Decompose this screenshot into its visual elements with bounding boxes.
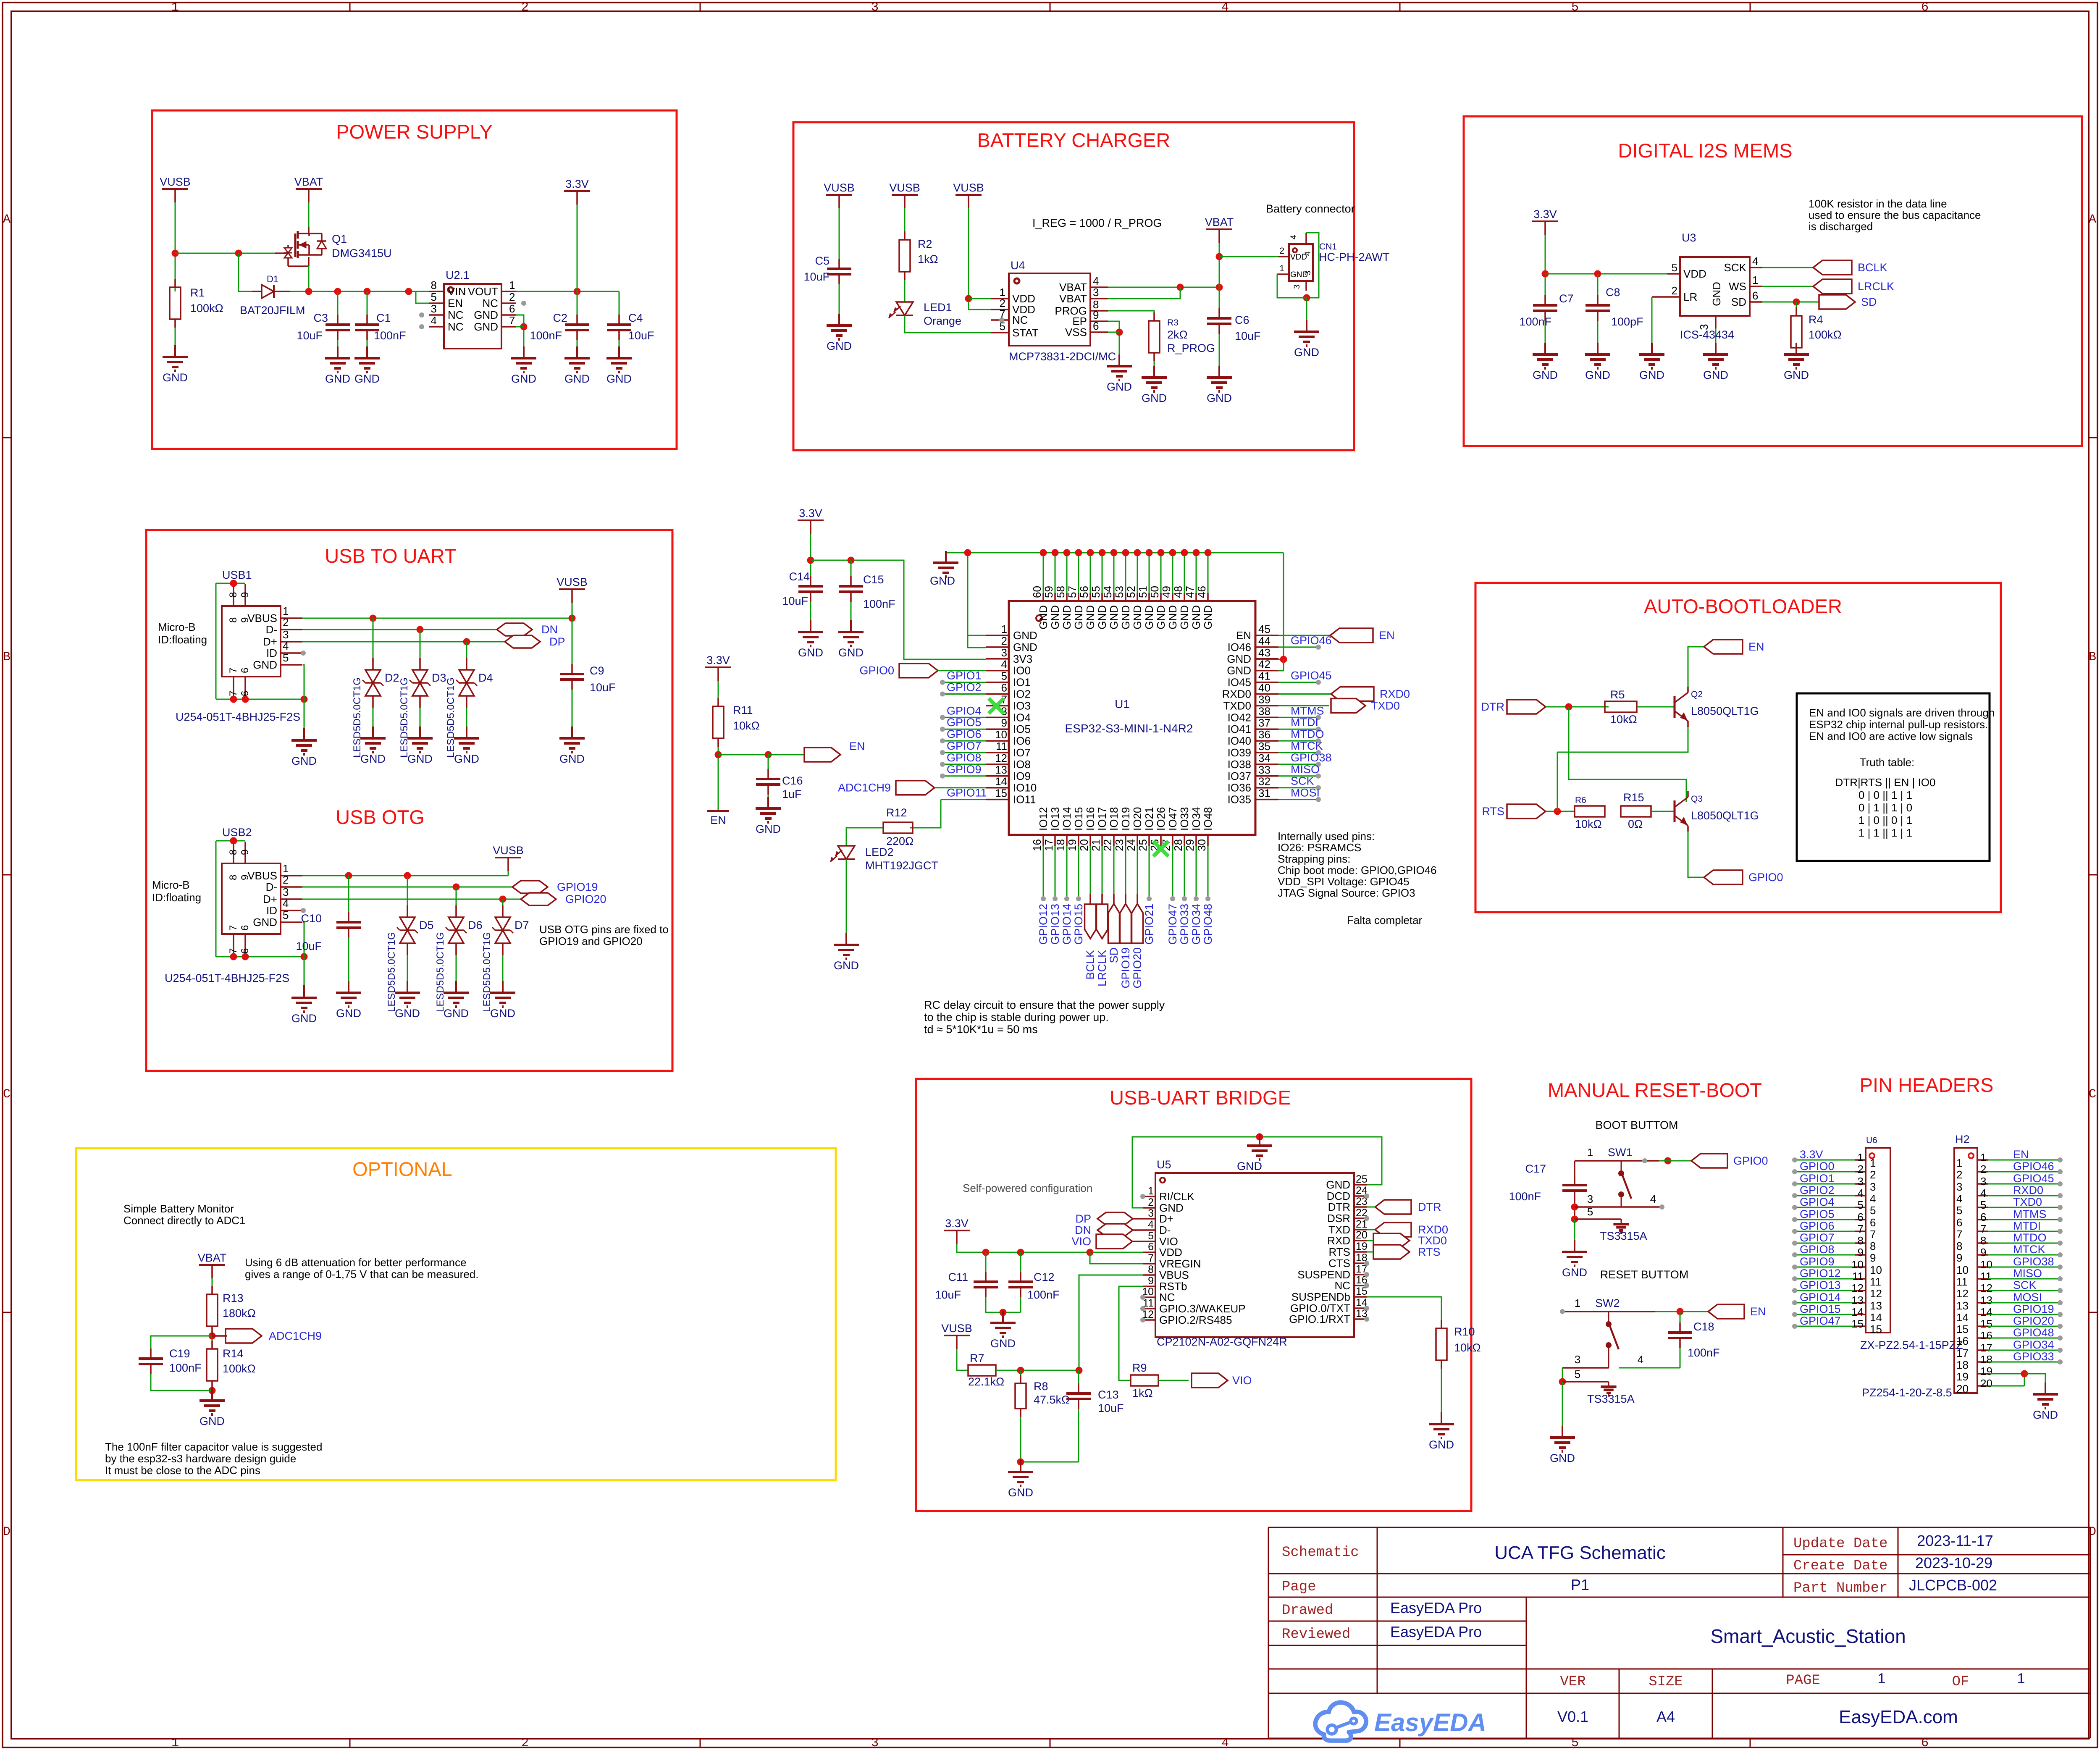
svg-text:GPIO14: GPIO14 [1800,1291,1841,1304]
svg-text:3: 3 [1858,1175,1864,1188]
svg-text:GPIO20: GPIO20 [2013,1314,2054,1327]
svg-text:SUSPENDb: SUSPENDb [1291,1291,1350,1303]
svg-text:11: 11 [1852,1270,1864,1283]
svg-text:2: 2 [1279,246,1284,256]
svg-text:2: 2 [1672,284,1677,297]
svg-text:6: 6 [239,691,251,696]
svg-text:20: 20 [1078,839,1090,851]
svg-text:7: 7 [1956,1228,1962,1241]
svg-text:ADC1CH9: ADC1CH9 [269,1330,322,1342]
svg-text:DP: DP [549,635,565,648]
svg-text:GPIO6: GPIO6 [947,728,982,740]
svg-text:Internally used pins:: Internally used pins: [1278,830,1375,842]
svg-text:4: 4 [1289,235,1298,239]
svg-text:GND: GND [1326,1178,1350,1191]
svg-text:31: 31 [1258,787,1270,800]
svg-text:ID: ID [266,647,277,659]
svg-text:49: 49 [1160,586,1173,598]
svg-text:VDD_SPI Voltage: GPIO45: VDD_SPI Voltage: GPIO45 [1278,875,1410,888]
svg-text:VUSB: VUSB [824,181,855,194]
svg-text:IO47: IO47 [1166,807,1179,831]
svg-text:U4: U4 [1011,259,1025,272]
svg-text:OPTIONAL: OPTIONAL [352,1158,452,1180]
svg-text:GND: GND [1155,605,1167,630]
svg-text:4: 4 [1870,1192,1876,1205]
svg-text:R14: R14 [223,1347,244,1360]
svg-text:C14: C14 [789,570,810,583]
svg-text:25: 25 [1356,1173,1368,1185]
svg-text:used to ensure the bus capacit: used to ensure the bus capacitance [1809,209,1981,221]
svg-text:8: 8 [228,850,239,855]
svg-text:CN1: CN1 [1319,242,1337,252]
svg-text:D-: D- [1159,1224,1171,1236]
svg-text:GPIO8: GPIO8 [947,751,982,764]
svg-text:C2: C2 [553,312,567,324]
svg-text:GPIO33: GPIO33 [2013,1350,2054,1363]
svg-text:VBAT: VBAT [1059,292,1087,305]
svg-text:POWER SUPPLY: POWER SUPPLY [336,121,493,143]
svg-text:MISO: MISO [1291,763,1320,776]
svg-text:36: 36 [1258,728,1270,741]
svg-text:R7: R7 [970,1352,984,1364]
svg-text:A: A [3,213,10,227]
svg-text:3.3V: 3.3V [565,178,589,190]
svg-text:10uF: 10uF [628,329,654,342]
svg-text:7: 7 [228,925,239,931]
svg-text:GND: GND [838,646,864,659]
svg-text:Drawed: Drawed [1282,1603,1333,1619]
svg-text:MISO: MISO [2013,1267,2042,1280]
svg-text:1: 1 [1870,1157,1876,1169]
svg-text:IO4: IO4 [1013,711,1031,724]
svg-text:1kΩ: 1kΩ [1132,1387,1153,1399]
svg-text:RC delay circuit to ensure tha: RC delay circuit to ensure that the powe… [924,999,1165,1011]
svg-text:A4: A4 [1656,1708,1675,1725]
svg-text:by the esp32-s3 hardware desig: by the esp32-s3 hardware design guide [105,1452,296,1465]
svg-text:2: 2 [1870,1168,1876,1181]
svg-text:1: 1 [1858,1151,1864,1164]
svg-text:2: 2 [283,616,289,629]
svg-text:2: 2 [1980,1163,1986,1175]
svg-text:Battery connector: Battery connector [1266,202,1355,215]
svg-text:59: 59 [1042,586,1055,598]
svg-text:GND: GND [1119,605,1132,630]
svg-text:IO5: IO5 [1013,723,1031,735]
svg-text:8: 8 [1980,1234,1986,1247]
svg-text:9: 9 [1956,1251,1962,1264]
svg-text:1: 1 [283,605,289,617]
svg-text:15: 15 [1980,1317,1992,1330]
svg-text:8: 8 [228,617,239,623]
svg-text:37: 37 [1258,716,1270,729]
svg-text:GND: GND [1072,605,1085,630]
svg-text:Chip boot mode: GPIO0,GPIO46: Chip boot mode: GPIO0,GPIO46 [1278,864,1437,876]
svg-text:39: 39 [1258,693,1270,706]
svg-text:10kΩ: 10kΩ [1610,713,1637,726]
svg-text:3: 3 [1956,1181,1962,1193]
svg-text:AUTO-BOOTLOADER: AUTO-BOOTLOADER [1644,595,1842,617]
svg-text:L8050QLT1G: L8050QLT1G [1691,809,1759,822]
svg-text:14: 14 [1851,1306,1864,1318]
svg-text:IO7: IO7 [1013,746,1031,759]
svg-text:GND: GND [1710,282,1723,306]
svg-text:GPIO34: GPIO34 [2013,1338,2054,1351]
svg-text:GPIO19 and GPIO20: GPIO19 and GPIO20 [539,935,643,947]
svg-text:VBUS: VBUS [247,612,277,624]
svg-text:2: 2 [521,1736,529,1750]
svg-text:TXD0: TXD0 [1418,1234,1447,1247]
svg-text:100kΩ: 100kΩ [223,1362,256,1375]
svg-text:2: 2 [1956,1168,1962,1181]
svg-text:C11: C11 [948,1271,968,1283]
svg-text:IO40: IO40 [1228,735,1251,747]
svg-text:GND: GND [1533,369,1558,381]
svg-text:2: 2 [1001,635,1007,647]
svg-text:1 | 0 || 0 | 1: 1 | 0 || 0 | 1 [1858,814,1912,826]
svg-text:Reviewed: Reviewed [1282,1627,1350,1642]
svg-text:EN: EN [448,297,463,310]
svg-text:3: 3 [1870,1181,1876,1193]
svg-text:SD: SD [1731,296,1746,308]
svg-text:8: 8 [1858,1234,1864,1247]
svg-text:GPIO13: GPIO13 [1800,1279,1841,1291]
svg-text:D4: D4 [478,672,493,684]
svg-text:100kΩ: 100kΩ [190,302,223,315]
svg-text:VBAT: VBAT [1205,216,1234,228]
svg-text:RESET BUTTOM: RESET BUTTOM [1600,1268,1689,1281]
svg-text:NC: NC [1159,1291,1175,1304]
svg-text:U2.1: U2.1 [446,269,470,281]
svg-text:17: 17 [1042,839,1055,851]
svg-text:180kΩ: 180kΩ [223,1307,256,1320]
svg-text:1: 1 [509,279,515,291]
svg-text:GND: GND [1084,605,1097,630]
svg-text:GPIO2: GPIO2 [1800,1184,1835,1196]
svg-text:R5: R5 [1610,688,1625,701]
svg-text:VDD: VDD [1159,1246,1182,1259]
svg-text:10uF: 10uF [1235,330,1261,342]
svg-text:Q1: Q1 [332,233,347,245]
svg-text:MOSI: MOSI [1291,787,1320,799]
svg-text:11: 11 [1980,1270,1992,1283]
svg-text:GPIO47: GPIO47 [1166,904,1179,945]
svg-text:18: 18 [1980,1353,1992,1366]
svg-text:GND: GND [1049,605,1061,630]
svg-text:EN: EN [1236,629,1251,642]
svg-text:BAT20JFILM: BAT20JFILM [240,304,305,317]
svg-text:10kΩ: 10kΩ [1575,818,1602,830]
svg-text:EN and IO0 signals are driven: EN and IO0 signals are driven through [1809,706,1995,719]
svg-text:9: 9 [1148,1275,1154,1287]
svg-text:12: 12 [1851,1282,1864,1294]
svg-text:1: 1 [1956,1157,1962,1169]
svg-text:NC: NC [1334,1279,1350,1292]
svg-text:13: 13 [1956,1299,1969,1312]
svg-text:GND: GND [2033,1409,2058,1421]
svg-text:IO12: IO12 [1037,807,1050,831]
svg-text:11: 11 [1870,1275,1881,1288]
svg-text:18: 18 [1054,839,1067,851]
svg-text:GPIO38: GPIO38 [1291,751,1332,764]
svg-text:GND: GND [1237,1160,1262,1173]
svg-text:C4: C4 [628,312,643,324]
svg-text:D: D [3,1525,10,1539]
svg-text:LESD5D5.0CT1G: LESD5D5.0CT1G [445,677,457,758]
svg-text:100nF: 100nF [1688,1346,1720,1359]
svg-text:RTS: RTS [1418,1246,1441,1258]
svg-text:5: 5 [1001,670,1007,682]
svg-text:D-: D- [266,623,277,636]
svg-text:D6: D6 [468,919,483,931]
svg-text:GPIO48: GPIO48 [2013,1326,2054,1339]
svg-text:NC: NC [482,297,498,310]
svg-text:GPIO15: GPIO15 [1800,1303,1841,1315]
svg-text:10uF: 10uF [297,329,323,342]
svg-text:MANUAL RESET-BOOT: MANUAL RESET-BOOT [1548,1079,1762,1101]
svg-text:8: 8 [1148,1264,1154,1275]
svg-text:LRCLK: LRCLK [1096,950,1108,987]
svg-text:gives a range of 0-1,75 V that: gives a range of 0-1,75 V that can be me… [245,1268,478,1280]
svg-text:VBUS: VBUS [247,869,277,882]
svg-text:14: 14 [995,775,1007,788]
svg-text:GND: GND [930,575,955,587]
svg-text:10: 10 [1980,1258,1992,1271]
svg-text:B: B [2089,650,2096,664]
svg-text:GPIO5: GPIO5 [947,716,982,729]
svg-text:ESP32 chip internal pull-up re: ESP32 chip internal pull-up resistors. [1809,718,1988,731]
svg-text:55: 55 [1089,586,1102,598]
svg-text:100nF: 100nF [1027,1288,1060,1301]
svg-text:LRCLK: LRCLK [1858,280,1894,293]
svg-text:52: 52 [1125,586,1137,598]
svg-text:IO10: IO10 [1013,782,1037,794]
svg-text:R15: R15 [1623,791,1644,804]
svg-text:Orange: Orange [924,315,961,327]
svg-text:IO38: IO38 [1228,758,1251,771]
svg-text:13: 13 [1870,1299,1882,1312]
svg-text:5: 5 [1956,1204,1962,1217]
svg-text:NC: NC [1012,314,1028,326]
svg-text:6: 6 [1921,0,1929,15]
svg-text:Self-powered configuration: Self-powered configuration [963,1182,1092,1194]
svg-text:22: 22 [1101,839,1114,851]
svg-text:44: 44 [1258,635,1270,647]
svg-text:NC: NC [448,320,464,333]
svg-text:GND: GND [444,1007,469,1020]
svg-text:GPIO7: GPIO7 [1800,1231,1835,1244]
svg-text:9: 9 [1001,716,1007,729]
svg-text:19: 19 [1356,1241,1368,1252]
svg-text:5: 5 [283,651,289,664]
svg-text:19: 19 [1956,1370,1969,1383]
svg-text:EN: EN [1748,640,1764,653]
svg-text:14: 14 [1870,1311,1882,1324]
svg-text:C7: C7 [1559,292,1574,305]
svg-text:U6: U6 [1866,1136,1877,1145]
svg-text:Connect directly to ADC1: Connect directly to ADC1 [123,1214,245,1227]
svg-text:4: 4 [1650,1193,1656,1205]
svg-text:ID:floating: ID:floating [158,633,207,646]
svg-text:GPIO0: GPIO0 [859,664,894,677]
svg-text:Create Date: Create Date [1793,1558,1887,1574]
svg-text:VREGIN: VREGIN [1159,1257,1201,1270]
svg-text:3.3V: 3.3V [1800,1148,1823,1161]
svg-text:LED2: LED2 [865,846,894,858]
svg-text:GND: GND [827,340,852,352]
svg-text:38: 38 [1258,705,1270,717]
svg-text:ICS-43434: ICS-43434 [1680,328,1734,341]
svg-text:12: 12 [1980,1282,1992,1294]
svg-text:R9: R9 [1132,1362,1147,1374]
svg-text:IO39: IO39 [1228,746,1251,759]
svg-text:53: 53 [1113,586,1126,598]
svg-text:I_REG = 1000 / R_PROG: I_REG = 1000 / R_PROG [1032,217,1162,229]
svg-text:U254-051T-4BHJ25-F2S: U254-051T-4BHJ25-F2S [176,711,300,723]
svg-text:GND: GND [490,1007,515,1020]
svg-text:47: 47 [1184,586,1196,598]
svg-text:GND: GND [1166,605,1179,630]
svg-text:C3: C3 [313,312,328,324]
svg-text:GND: GND [291,1012,317,1025]
svg-text:MTDI: MTDI [1291,716,1318,729]
svg-text:RTS: RTS [1328,1246,1350,1258]
svg-text:4: 4 [283,897,289,910]
svg-text:LESD5D5.0CT1G: LESD5D5.0CT1G [386,932,397,1012]
svg-text:100nF: 100nF [169,1362,202,1374]
svg-text:4: 4 [1638,1353,1643,1366]
svg-text:2: 2 [1148,1196,1154,1208]
svg-text:GND: GND [834,959,859,972]
svg-text:C: C [3,1087,10,1102]
svg-text:IO46: IO46 [1228,641,1251,653]
svg-text:15: 15 [995,787,1007,800]
svg-text:LESD5D5.0CT1G: LESD5D5.0CT1G [399,677,410,758]
svg-text:U254-051T-4BHJ25-F2S: U254-051T-4BHJ25-F2S [165,972,289,984]
svg-text:Falta completar: Falta completar [1347,914,1423,926]
svg-text:19: 19 [1980,1365,1992,1377]
svg-text:10: 10 [1956,1264,1969,1276]
svg-text:1: 1 [1575,1297,1580,1309]
svg-text:IO26: PSRAMCS: IO26: PSRAMCS [1278,841,1361,854]
svg-text:IO33: IO33 [1178,807,1191,831]
svg-text:Truth table:: Truth table: [1860,756,1915,769]
svg-text:4: 4 [1221,1736,1229,1750]
svg-text:Q2: Q2 [1691,690,1703,699]
svg-text:The 100nF filter capacitor val: The 100nF filter capacitor value is sugg… [105,1440,322,1453]
svg-text:IO8: IO8 [1013,758,1031,771]
svg-text:MTMS: MTMS [1291,704,1324,717]
svg-text:10: 10 [995,728,1007,741]
svg-text:18: 18 [1956,1359,1969,1371]
svg-text:100nF: 100nF [1509,1190,1541,1203]
svg-text:VUSB: VUSB [556,576,588,588]
svg-text:45: 45 [1258,623,1270,635]
svg-text:GND: GND [1585,369,1610,381]
svg-text:1: 1 [1752,274,1758,286]
svg-text:GND: GND [1178,605,1191,630]
svg-text:DTR: DTR [1418,1201,1441,1213]
svg-text:5: 5 [1980,1199,1986,1211]
svg-text:20: 20 [1980,1377,1992,1390]
svg-text:IO20: IO20 [1131,807,1144,831]
svg-text:R12: R12 [886,806,907,819]
svg-text:USB1: USB1 [222,569,252,581]
svg-text:VUSB: VUSB [953,181,984,194]
svg-text:GPIO20: GPIO20 [565,893,606,905]
svg-text:STAT: STAT [1012,326,1039,339]
svg-text:MTDO: MTDO [2013,1231,2046,1244]
svg-text:GPIO12: GPIO12 [1800,1267,1841,1280]
svg-text:Smart_Acustic_Station: Smart_Acustic_Station [1710,1625,1906,1647]
svg-text:3: 3 [1093,286,1099,299]
svg-text:DN: DN [1075,1224,1091,1236]
svg-text:7: 7 [228,948,239,954]
svg-text:BCLK: BCLK [1858,261,1887,274]
svg-text:R4: R4 [1809,313,1823,326]
svg-text:GPIO12: GPIO12 [1037,904,1050,945]
svg-text:17: 17 [1956,1347,1969,1359]
svg-text:ZX-PZ2.54-1-15PZZ: ZX-PZ2.54-1-15PZZ [1860,1339,1963,1351]
svg-text:3: 3 [283,628,289,641]
svg-text:PIN HEADERS: PIN HEADERS [1860,1074,1994,1096]
svg-text:9: 9 [1858,1246,1864,1259]
svg-text:0 | 0 || 1 | 1: 0 | 0 || 1 | 1 [1858,789,1912,801]
svg-text:51: 51 [1137,586,1149,598]
svg-text:MTMS: MTMS [2013,1208,2046,1220]
svg-text:8: 8 [228,592,239,598]
svg-text:USB2: USB2 [222,826,252,839]
svg-text:GND: GND [1037,605,1050,630]
svg-text:100nF: 100nF [374,329,406,342]
svg-text:17: 17 [1980,1341,1992,1354]
svg-text:13: 13 [995,763,1007,776]
svg-text:R13: R13 [223,1292,244,1304]
svg-text:Using 6 dB attenuation for bet: Using 6 dB attenuation for better perfor… [245,1256,467,1269]
svg-text:Part Number: Part Number [1793,1580,1887,1596]
svg-text:6: 6 [239,925,251,931]
svg-text:GND: GND [253,659,277,671]
svg-text:3.3V: 3.3V [945,1217,969,1230]
svg-text:10uF: 10uF [1098,1402,1124,1414]
svg-text:GPIO.1/RXT: GPIO.1/RXT [1289,1313,1350,1325]
svg-text:8: 8 [228,875,239,880]
svg-text:10kΩ: 10kΩ [733,719,760,732]
svg-text:19: 19 [1066,839,1079,851]
svg-text:GND: GND [1190,605,1202,630]
svg-text:JTAG Signal Source: GPIO3: JTAG Signal Source: GPIO3 [1278,887,1415,899]
svg-text:GND: GND [325,373,350,385]
svg-text:46: 46 [1195,586,1208,598]
svg-text:C10: C10 [301,912,322,925]
svg-text:IO14: IO14 [1060,807,1073,831]
svg-text:GPIO45: GPIO45 [2013,1172,2054,1185]
svg-text:GND: GND [474,309,498,321]
svg-text:21: 21 [1089,839,1102,851]
svg-text:RI/CLK: RI/CLK [1159,1190,1194,1203]
svg-text:8: 8 [431,279,437,291]
svg-text:1: 1 [283,862,289,875]
svg-text:5: 5 [1587,1205,1593,1218]
svg-text:3: 3 [1148,1207,1154,1219]
svg-text:IO9: IO9 [1013,770,1031,782]
svg-text:GND: GND [360,753,386,765]
svg-text:5: 5 [1575,1368,1580,1380]
svg-text:IO36: IO36 [1228,782,1251,794]
svg-text:IO34: IO34 [1190,807,1202,831]
svg-text:VDD: VDD [1683,268,1706,280]
svg-text:RXD: RXD [1327,1234,1350,1247]
svg-text:IO42: IO42 [1228,711,1251,724]
